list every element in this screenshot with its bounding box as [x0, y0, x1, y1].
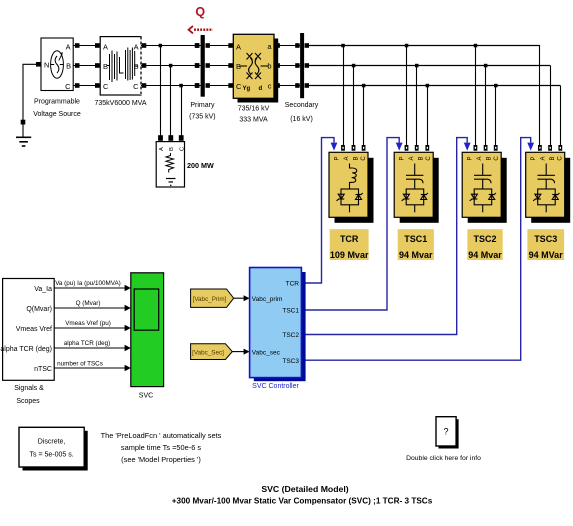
- block: TSC2: [462, 152, 507, 223]
- svg-text:Va (pu) Ia (pu/100MVA): Va (pu) Ia (pu/100MVA): [55, 280, 121, 287]
- blue control wire TCR: [301, 138, 334, 283]
- vertical drops TSC1 A,B,C: [405, 44, 429, 146]
- vertical drops TSC2 A,B,C: [474, 44, 498, 146]
- svg-text:735/16 kV: 735/16 kV: [238, 106, 270, 113]
- svg-text:[Vabc_Sec]: [Vabc_Sec]: [192, 349, 224, 356]
- block: 200 MW load: [156, 135, 214, 187]
- svg-text:SVC (Detailed Model): SVC (Detailed Model): [261, 484, 348, 494]
- svg-text:(16 kV): (16 kV): [290, 116, 313, 123]
- wire transformer to secondary bar (a,b,c): [274, 43, 300, 88]
- svg-text:sample time Ts =50e-6 s: sample time Ts =50e-6 s: [121, 443, 201, 452]
- tag: [Vabc_Sec]: [191, 344, 233, 360]
- svg-text:alpha TCR (deg): alpha TCR (deg): [0, 346, 52, 353]
- wire source B to 735kV block: [73, 63, 100, 68]
- svg-text:B: B: [487, 156, 493, 160]
- svg-text:B: B: [354, 156, 360, 160]
- annotation: PreLoadFcn note: [101, 431, 222, 464]
- junction load tap A: [159, 44, 163, 136]
- svg-text:Voltage Source: Voltage Source: [33, 111, 81, 118]
- svg-text:B: B: [419, 156, 425, 160]
- svg-text:B: B: [169, 147, 175, 151]
- transformer winding icon: [240, 53, 269, 79]
- TSC3 capacitor + thyristor icon: [533, 164, 559, 213]
- bus wire phase B: [309, 65, 550, 67]
- wire primary bar to transformer (A,B,C): [210, 43, 233, 88]
- svg-text:TSC3: TSC3: [282, 358, 299, 365]
- svg-text:A: A: [66, 43, 71, 52]
- wire 735kV B to primary bar: [141, 63, 201, 68]
- block: Programmable Voltage Source: [33, 38, 81, 118]
- svg-text:333 MVA: 333 MVA: [239, 117, 268, 124]
- svg-text:Q(Mvar): Q(Mvar): [26, 306, 52, 313]
- blue control wire TSC1: [301, 138, 399, 310]
- wire tag prim to controller: [234, 295, 250, 301]
- wire 735kV A to primary bar: [141, 43, 201, 48]
- svg-text:Vabc_sec: Vabc_sec: [252, 349, 281, 356]
- svg-text:TSC1: TSC1: [404, 234, 427, 244]
- svg-text:94 MVar: 94 MVar: [529, 250, 564, 260]
- block: 735kV 6000 MVA source impedance: [94, 37, 146, 107]
- svg-text:TSC2: TSC2: [282, 332, 299, 339]
- svg-text:P: P: [468, 156, 474, 160]
- wire source C to 735kV block: [73, 83, 100, 88]
- block: Primary measurement bar: [189, 35, 215, 121]
- svg-text:109 Mvar: 109 Mvar: [330, 250, 369, 260]
- junction load tap C: [179, 84, 183, 136]
- block: Discrete Ts: [19, 427, 88, 470]
- svg-text:Secondary: Secondary: [285, 102, 319, 109]
- svg-text:C: C: [236, 82, 242, 91]
- top port squares of power blocks: [341, 145, 562, 151]
- svg-text:SVC Controller: SVC Controller: [252, 383, 299, 390]
- svg-text:Q (Mvar): Q (Mvar): [76, 300, 101, 307]
- svg-text:A: A: [477, 156, 483, 160]
- svg-text:SVC: SVC: [139, 393, 153, 400]
- svg-text:A: A: [236, 43, 241, 52]
- svg-text:The 'PreLoadFcn ' automatical: The 'PreLoadFcn ' automatically sets: [101, 431, 222, 440]
- icon strokes: [107, 48, 139, 83]
- svg-text:Va_Ia: Va_Ia: [34, 286, 52, 293]
- bus wire phase C: [309, 85, 560, 87]
- svg-text:Primary: Primary: [190, 102, 215, 109]
- tag: [Vabc_Prim]: [191, 289, 234, 307]
- svg-text:B: B: [550, 156, 556, 160]
- block: TCR: [329, 152, 374, 223]
- svg-text:(see 'Model Properties '): (see 'Model Properties '): [121, 455, 201, 464]
- svg-text:735kV6000 MVA: 735kV6000 MVA: [94, 100, 146, 107]
- svg-text:Double click here for info: Double click here for info: [406, 455, 481, 462]
- svg-text:A: A: [134, 43, 139, 52]
- svg-text:C: C: [361, 156, 367, 161]
- block: TSC1: [394, 152, 439, 223]
- svg-text:c: c: [268, 82, 272, 91]
- label: TSC3 94 MVar: [527, 229, 564, 260]
- vertical drops TSC3 A,B,C: [540, 46, 561, 146]
- svg-text:Vmeas Vref: Vmeas Vref: [16, 326, 52, 333]
- svg-text:Signals &: Signals &: [14, 385, 44, 392]
- svg-text:[Vabc_Prim]: [Vabc_Prim]: [193, 296, 227, 303]
- label: TSC1 94 Mvar: [398, 229, 434, 260]
- svg-text:P: P: [400, 156, 406, 160]
- wire Q to scope: [54, 300, 131, 311]
- svg-text:C: C: [103, 82, 109, 91]
- svg-text:TCR: TCR: [286, 281, 300, 288]
- svg-text:?: ?: [443, 427, 448, 437]
- wire N to ground: [21, 62, 41, 137]
- svg-text:TCR: TCR: [340, 234, 359, 244]
- svg-text:94 Mvar: 94 Mvar: [399, 250, 433, 260]
- svg-text:C: C: [426, 156, 432, 161]
- title annotation: [172, 484, 433, 506]
- TCR inductor + thyristor icon: [337, 164, 363, 213]
- wire source A to 735kV block: [73, 43, 100, 48]
- svg-text:Programmable: Programmable: [34, 99, 80, 106]
- vertical drops TCR A,B,C: [341, 44, 365, 146]
- svg-text:Yg: Yg: [243, 86, 251, 92]
- wire Va to scope: [54, 280, 131, 291]
- block: SVC Controller: [250, 268, 306, 391]
- block: TSC3: [526, 152, 571, 223]
- svg-text:A: A: [409, 156, 415, 160]
- svg-text:number of TSCs: number of TSCs: [57, 361, 103, 368]
- svg-text:Vabc_prim: Vabc_prim: [252, 296, 283, 303]
- svg-text:A: A: [541, 156, 547, 160]
- wire tag sec to controller: [232, 349, 249, 355]
- svg-text:(735 kV): (735 kV): [189, 114, 215, 121]
- wire alpha to scope: [54, 340, 131, 351]
- TSC1 capacitor + thyristor icon: [402, 164, 428, 213]
- svg-text:C: C: [558, 156, 564, 161]
- annotation Q dashed arrow: [189, 26, 213, 33]
- svg-text:TSC1: TSC1: [282, 308, 299, 315]
- wire Vmeas to scope: [54, 320, 131, 331]
- ground: [16, 137, 31, 146]
- svg-text:Discrete,: Discrete,: [38, 439, 66, 446]
- wire nTSC to scope: [54, 361, 131, 372]
- svg-text:200 MW: 200 MW: [187, 161, 214, 170]
- svg-text:nTSC: nTSC: [34, 366, 52, 373]
- blue control wire TSC3: [301, 138, 530, 361]
- svg-text:A: A: [344, 156, 350, 160]
- svg-text:Vmeas Vref (pu): Vmeas Vref (pu): [65, 320, 111, 327]
- svg-text:C: C: [65, 82, 71, 91]
- svg-text:TSC2: TSC2: [473, 234, 496, 244]
- junction load tap B: [169, 64, 173, 136]
- label: TSC2 94 Mvar: [467, 229, 502, 260]
- svg-text:Q: Q: [195, 5, 205, 19]
- svg-text:N: N: [44, 61, 49, 70]
- blue control wire TSC2: [301, 138, 467, 335]
- svg-text:TSC3: TSC3: [534, 234, 557, 244]
- TSC2 capacitor + thyristor icon: [470, 164, 496, 213]
- block: Secondary measurement bar: [285, 33, 319, 123]
- label: TCR 109 Mvar: [330, 229, 369, 260]
- block: Signals & Scopes: [0, 279, 54, 406]
- svg-text:d: d: [259, 86, 263, 92]
- svg-text:+300 Mvar/-100 Mvar Static Var: +300 Mvar/-100 Mvar Static Var Compensat…: [172, 497, 433, 506]
- block: info ?: [406, 417, 481, 462]
- block: SVC scope: [131, 273, 164, 400]
- wire 735kV C to primary bar: [141, 83, 201, 88]
- svg-text:B: B: [103, 62, 108, 71]
- svg-text:Scopes: Scopes: [16, 398, 40, 405]
- svg-text:94 Mvar: 94 Mvar: [468, 250, 502, 260]
- svg-text:B: B: [66, 62, 71, 71]
- svg-text:alpha TCR (deg): alpha TCR (deg): [64, 340, 110, 347]
- bus wire phase A (secondary to TSC3): [309, 45, 540, 47]
- svg-text:C: C: [180, 147, 186, 151]
- svg-text:A: A: [159, 147, 165, 151]
- svg-text:Ts = 5e-005 s.: Ts = 5e-005 s.: [30, 452, 74, 459]
- svg-text:A: A: [103, 43, 108, 52]
- svg-text:P: P: [531, 156, 537, 160]
- svg-text:C: C: [494, 156, 500, 161]
- svg-text:P: P: [335, 156, 341, 160]
- svg-text:C: C: [133, 82, 139, 91]
- block: transformer 735/16 kV 333 MVA: [233, 34, 278, 123]
